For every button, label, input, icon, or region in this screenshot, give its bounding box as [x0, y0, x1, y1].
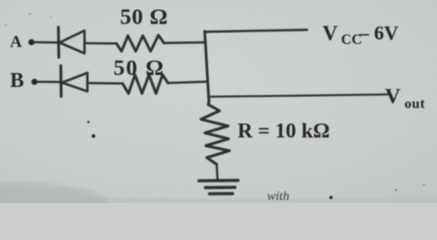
svg-text:R = 10 kΩ: R = 10 kΩ: [238, 119, 330, 143]
wire D2 to resistor R2: [87, 82, 122, 85]
svg-text:– 6V: – 6V: [358, 23, 399, 45]
label Vout: [385, 84, 425, 112]
diode D1 triangle: [60, 31, 85, 54]
wire B input to diode D2: [37, 81, 61, 83]
input terminal dot B: [31, 79, 37, 85]
svg-text:A: A: [10, 32, 22, 51]
node junction vertical wire: [205, 31, 209, 102]
ground bar 3: [210, 192, 233, 195]
label Vcc - 6V: [323, 21, 400, 48]
resistor R vertical zigzag: [201, 101, 230, 164]
node A label: [10, 32, 22, 51]
svg-text:with: with: [267, 188, 289, 203]
Vcc supply rail wire: [205, 30, 307, 32]
resistor R2 50 ohm zigzag: [123, 75, 169, 94]
node B label: [10, 68, 24, 92]
diode D1 cathode bar: [57, 27, 60, 57]
wire A input to diode D1: [34, 41, 59, 43]
svg-text:V: V: [323, 21, 338, 45]
wire R2 to node: [168, 82, 208, 83]
svg-text:50 Ω: 50 Ω: [114, 55, 165, 80]
diode D2 cathode bar: [59, 66, 62, 97]
label R = 10 kOhm: [238, 119, 330, 143]
ground bar 2: [206, 186, 236, 190]
input terminal dot A: [28, 39, 34, 45]
label 50 ohm (R1): [120, 4, 168, 29]
label 50 ohm (R2): [114, 55, 165, 80]
svg-text:V: V: [385, 84, 401, 108]
diode D2 triangle: [62, 73, 87, 92]
resistor R1 50 ohm zigzag: [117, 35, 165, 51]
wire R1 to node: [164, 41, 206, 44]
wire D1 to resistor R1: [85, 42, 117, 44]
Vout output wire: [208, 94, 388, 96]
ground bar 1: [199, 179, 238, 183]
svg-text:50 Ω: 50 Ω: [120, 4, 168, 29]
svg-text:out: out: [405, 97, 426, 112]
svg-text:B: B: [10, 68, 24, 92]
wire R to ground: [216, 164, 219, 179]
